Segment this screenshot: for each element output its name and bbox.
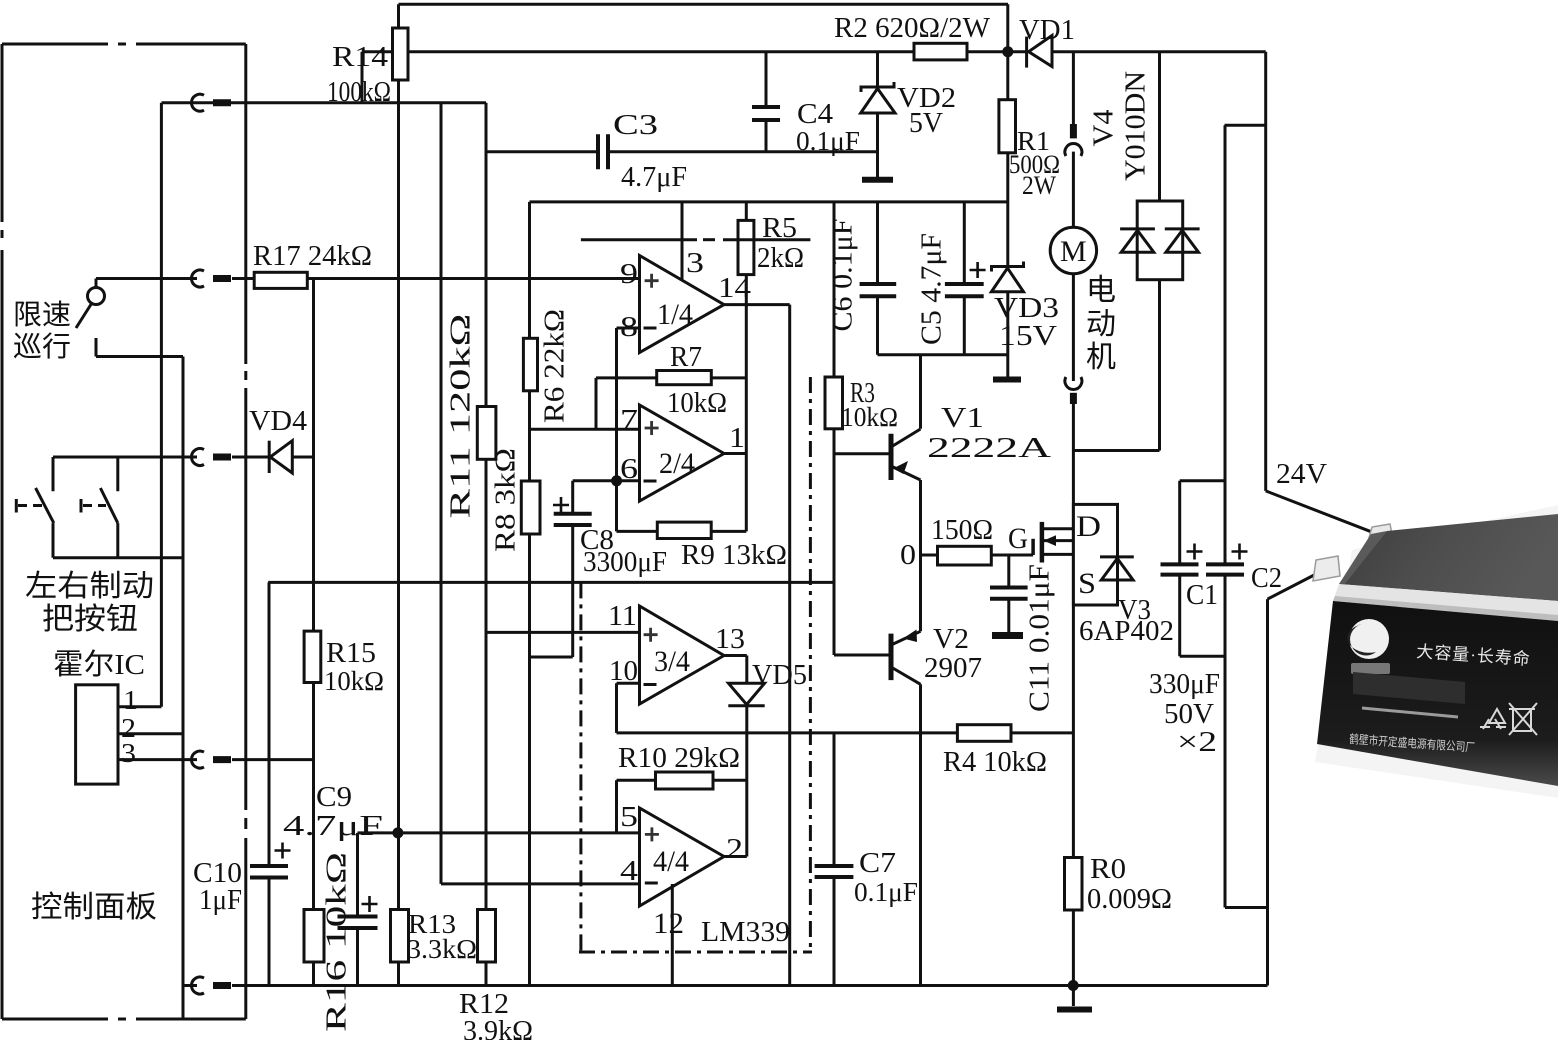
svg-text:R14: R14 [332,41,389,73]
svg-text:R17 24kΩ: R17 24kΩ [253,241,372,272]
svg-text:限速: 限速 [13,300,71,331]
svg-text:11: 11 [608,600,637,632]
svg-text:2222A: 2222A [927,432,1051,464]
svg-text:巡行: 巡行 [13,331,71,363]
svg-text:把按钮: 把按钮 [42,603,138,636]
svg-text:电: 电 [1086,274,1116,307]
svg-text:动: 动 [1086,308,1116,341]
svg-text:10kΩ: 10kΩ [841,402,898,432]
svg-text:R8 3kΩ: R8 3kΩ [490,448,521,552]
svg-text:C3: C3 [613,109,658,141]
svg-text:C6 0.1μF: C6 0.1μF [827,219,858,332]
svg-text:S: S [1078,567,1096,600]
svg-text:1/4: 1/4 [657,298,693,331]
svg-text:0.1μF: 0.1μF [854,877,918,907]
svg-text:1: 1 [123,685,138,715]
svg-text:6AP402: 6AP402 [1079,616,1174,647]
svg-text:2/4: 2/4 [659,447,695,480]
svg-text:V4: V4 [1088,110,1119,147]
svg-text:5V: 5V [909,108,943,139]
svg-text:4.7μF: 4.7μF [283,811,383,842]
svg-text:R15: R15 [326,638,376,669]
svg-text:2907: 2907 [924,652,982,684]
svg-text:C2: C2 [1251,562,1282,594]
svg-text:R6 22kΩ: R6 22kΩ [539,309,570,423]
svg-text:R0: R0 [1090,854,1126,885]
svg-text:G: G [1008,522,1028,555]
svg-text:R7: R7 [670,341,702,373]
svg-text:C1: C1 [1186,579,1218,611]
svg-text:4.7μF: 4.7μF [621,162,687,193]
svg-text:0: 0 [900,540,916,571]
svg-text:3: 3 [121,738,136,768]
svg-text:R10 29kΩ: R10 29kΩ [618,743,740,774]
svg-text:4: 4 [620,855,639,887]
svg-text:C11 0.01μF: C11 0.01μF [1024,564,1055,712]
svg-text:5: 5 [620,801,638,833]
svg-text:机: 机 [1086,341,1116,374]
svg-text:LM339: LM339 [701,916,790,948]
svg-text:C5 4.7μF: C5 4.7μF [916,233,947,345]
svg-text:V1: V1 [941,402,984,434]
svg-text:R11 120kΩ: R11 120kΩ [445,314,476,519]
svg-text:左右制动: 左右制动 [25,570,154,603]
svg-text:R5: R5 [762,212,797,244]
svg-text:10kΩ: 10kΩ [324,666,384,696]
svg-text:VD5: VD5 [752,660,807,691]
svg-text:0.009Ω: 0.009Ω [1087,884,1172,915]
svg-text:330μF: 330μF [1149,669,1220,700]
svg-text:100kΩ: 100kΩ [327,77,391,108]
svg-text:D: D [1076,510,1101,543]
svg-text:13: 13 [715,623,745,655]
svg-text:×2: ×2 [1177,727,1217,758]
svg-text:150Ω: 150Ω [931,515,993,546]
svg-text:M: M [1060,235,1087,268]
svg-text:3/4: 3/4 [654,645,690,678]
svg-text:10: 10 [609,655,638,687]
svg-text:VD3: VD3 [994,293,1059,324]
svg-text:7: 7 [620,404,638,436]
svg-text:10kΩ: 10kΩ [667,387,727,419]
svg-text:1: 1 [729,422,745,454]
svg-text:4/4: 4/4 [653,845,689,878]
svg-text:3300μF: 3300μF [583,547,667,578]
svg-text:霍尔IC: 霍尔IC [53,648,145,681]
svg-text:2W: 2W [1022,171,1056,200]
svg-text:V2: V2 [933,623,969,655]
svg-text:VD4: VD4 [249,405,308,437]
svg-text:R2 620Ω/2W: R2 620Ω/2W [834,13,991,44]
svg-text:2kΩ: 2kΩ [757,242,804,274]
svg-text:15V: 15V [999,321,1057,352]
svg-text:24V: 24V [1276,458,1327,490]
svg-text:0.1μF: 0.1μF [796,126,860,156]
svg-text:R4 10kΩ: R4 10kΩ [943,747,1047,778]
svg-text:控制面板: 控制面板 [31,891,157,924]
svg-text:3.9kΩ: 3.9kΩ [463,1015,533,1040]
svg-text:50V: 50V [1164,699,1214,730]
svg-text:R9 13kΩ: R9 13kΩ [681,539,787,571]
svg-text:8: 8 [620,311,638,343]
svg-text:14: 14 [718,272,752,304]
svg-text:3.3kΩ: 3.3kΩ [407,934,477,964]
svg-text:9: 9 [620,258,638,290]
svg-text:2: 2 [726,833,743,865]
svg-text:C7: C7 [859,847,896,879]
svg-text:12: 12 [653,907,684,940]
svg-text:VD1: VD1 [1019,14,1075,46]
svg-text:Y010DN: Y010DN [1120,71,1151,181]
svg-text:R16 10kΩ: R16 10kΩ [321,852,352,1032]
svg-text:C9: C9 [316,781,352,813]
svg-text:6: 6 [620,453,638,485]
svg-text:3: 3 [686,247,704,279]
svg-text:1μF: 1μF [199,884,242,916]
